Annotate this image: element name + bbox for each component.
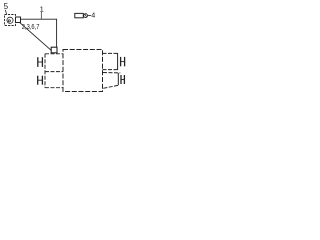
flange upper-right [121,57,125,66]
bolt head circle [84,14,88,18]
motor circle [7,17,13,23]
upper-right protrusion bottom edge [103,69,118,71]
motor inner mark [8,20,10,22]
flange upper-left [38,57,43,67]
svg-text:5: 5 [4,2,9,11]
flange lower-right [121,75,124,84]
bolt slot [85,14,87,17]
left protrusion top edge [45,53,63,55]
bolt body 4 [75,13,84,17]
svg-text:4: 4 [91,11,95,20]
left protrusion left edge [44,54,46,88]
wire 1 horizontal [21,18,58,20]
wire 1 vertical [56,19,58,47]
left protrusion middle edge [45,71,63,73]
motor dashed box [5,15,16,26]
diagonal leader 2,3,6,7 [20,22,52,50]
upper-right protrusion right edge [117,53,119,70]
left protrusion bottom edge [45,87,63,89]
lower-right protrusion top edge [103,72,120,74]
flange lower-left [38,76,43,85]
lower-right protrusion bottom edge [103,85,118,88]
connector rect on motor [16,17,21,23]
sensor rect on housing top [51,47,57,53]
main housing dashed box [63,50,103,92]
lower-right protrusion right edge [117,73,119,85]
leader for label 4 [88,15,91,17]
upper-right protrusion top edge [103,52,118,54]
leader from label 5 [5,10,6,15]
leader for label 1 [40,12,42,19]
svg-text:2,3,6,7: 2,3,6,7 [22,22,40,31]
svg-text:1: 1 [40,5,44,14]
